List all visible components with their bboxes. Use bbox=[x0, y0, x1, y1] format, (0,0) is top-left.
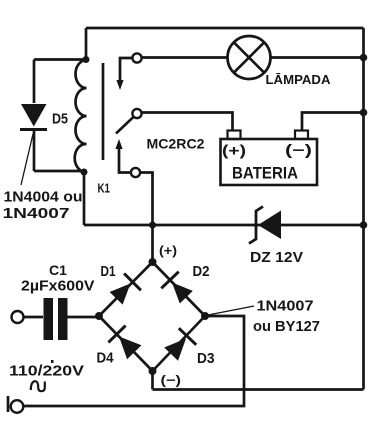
terminal AC bottom tick bbox=[7, 396, 10, 412]
diode D5 bbox=[20, 104, 47, 130]
svg-text:C1: C1 bbox=[49, 262, 67, 278]
wire bottom contact arm bbox=[119, 146, 131, 173]
svg-text:D5: D5 bbox=[52, 112, 68, 128]
wire D5 cathode vertical bbox=[33, 129, 36, 171]
zener diode DZ bbox=[249, 207, 281, 244]
diode D2 bbox=[161, 272, 193, 304]
node bridge minus bbox=[149, 367, 157, 375]
svg-text:D3: D3 bbox=[197, 351, 215, 367]
svg-text:(+): (+) bbox=[222, 144, 246, 160]
wire AC bottom to bridge right bbox=[23, 316, 244, 406]
svg-text:BATERIA: BATERIA bbox=[232, 164, 298, 183]
relay coil K1 bbox=[75, 60, 87, 172]
svg-text:ou BY127: ou BY127 bbox=[253, 319, 320, 335]
wire middle contact to battery plus bbox=[142, 113, 233, 132]
bridge arm top-left bbox=[99, 262, 153, 316]
label 220V accent dot bbox=[51, 360, 54, 363]
wire coil top drop bbox=[85, 28, 88, 60]
diode D3 bbox=[164, 328, 196, 361]
diode D4 bbox=[108, 326, 141, 360]
svg-text:D4: D4 bbox=[97, 351, 114, 367]
wire battery minus to rail bbox=[302, 113, 364, 131]
wire D5 top link bbox=[34, 58, 86, 61]
svg-text:D2: D2 bbox=[193, 264, 210, 280]
node coil top bbox=[83, 56, 90, 63]
pointer line to bridge diodes bbox=[208, 306, 254, 315]
lamp bbox=[228, 36, 271, 79]
svg-text:(−): (−) bbox=[285, 143, 312, 159]
wire common contact to bridge plus bbox=[140, 173, 153, 263]
bridge arm top-right bbox=[153, 262, 206, 316]
capacitor C1 bbox=[44, 298, 68, 340]
wire capacitor to bridge left bbox=[68, 316, 100, 319]
relay contact bottom bbox=[131, 168, 140, 177]
wire lamp right bbox=[271, 56, 364, 59]
pointer line to D5 bbox=[21, 134, 33, 185]
terminal AC bottom bbox=[11, 400, 24, 413]
wire lamp left bbox=[142, 56, 228, 59]
node bridge left bbox=[95, 312, 103, 320]
node battery rail bbox=[360, 109, 368, 117]
svg-text:1N4004 ou: 1N4004 ou bbox=[4, 190, 83, 206]
AC sine symbol bbox=[31, 381, 45, 391]
bridge arm bottom-left bbox=[99, 316, 153, 371]
wire top rail bbox=[86, 27, 364, 30]
node bridge right bbox=[201, 312, 209, 320]
node lamp rail bbox=[360, 54, 368, 62]
battery BATERIA bbox=[221, 131, 318, 186]
wire bridge bottom stub bbox=[151, 371, 154, 390]
svg-text:DZ 12V: DZ 12V bbox=[250, 249, 303, 266]
svg-text:(−): (−) bbox=[161, 373, 182, 388]
wire top contact arm bbox=[120, 58, 132, 83]
wire positive line to zener and rail bbox=[84, 224, 364, 227]
svg-text:K1: K1 bbox=[98, 181, 111, 196]
relay contact top NO bbox=[132, 53, 141, 62]
svg-text:D1: D1 bbox=[101, 264, 116, 280]
terminal AC top bbox=[12, 311, 24, 323]
arrow top contact bbox=[116, 80, 123, 90]
relay core K1 bbox=[102, 63, 105, 160]
svg-text:2µFx600V: 2µFx600V bbox=[21, 279, 95, 295]
bridge arm bottom-right bbox=[153, 316, 206, 371]
wire right rail bbox=[362, 28, 365, 390]
diode D1 bbox=[110, 274, 141, 305]
relay contact middle common bbox=[132, 109, 141, 118]
svg-text:(+): (+) bbox=[159, 243, 177, 258]
svg-text:MC2RC2: MC2RC2 bbox=[147, 136, 205, 152]
svg-text:110/220V: 110/220V bbox=[9, 364, 84, 380]
wire AC top to capacitor bbox=[24, 316, 44, 319]
node bridge plus bbox=[149, 258, 157, 266]
wire coil bottom drop bbox=[83, 171, 86, 225]
svg-text:1N4007: 1N4007 bbox=[3, 206, 70, 222]
svg-text:1N4007: 1N4007 bbox=[257, 299, 314, 315]
wire D5 anode vertical bbox=[33, 60, 36, 104]
relay armature lever bbox=[116, 117, 134, 134]
node positive junction bbox=[149, 222, 156, 229]
arrow bottom contact bbox=[115, 139, 122, 149]
node coil bottom bbox=[81, 169, 88, 176]
wire D5 bottom link bbox=[34, 170, 84, 173]
wire bottom negative line bbox=[153, 388, 364, 391]
node zener rail bbox=[360, 221, 368, 229]
svg-text:LĀMPADA: LĀMPADA bbox=[266, 72, 331, 87]
